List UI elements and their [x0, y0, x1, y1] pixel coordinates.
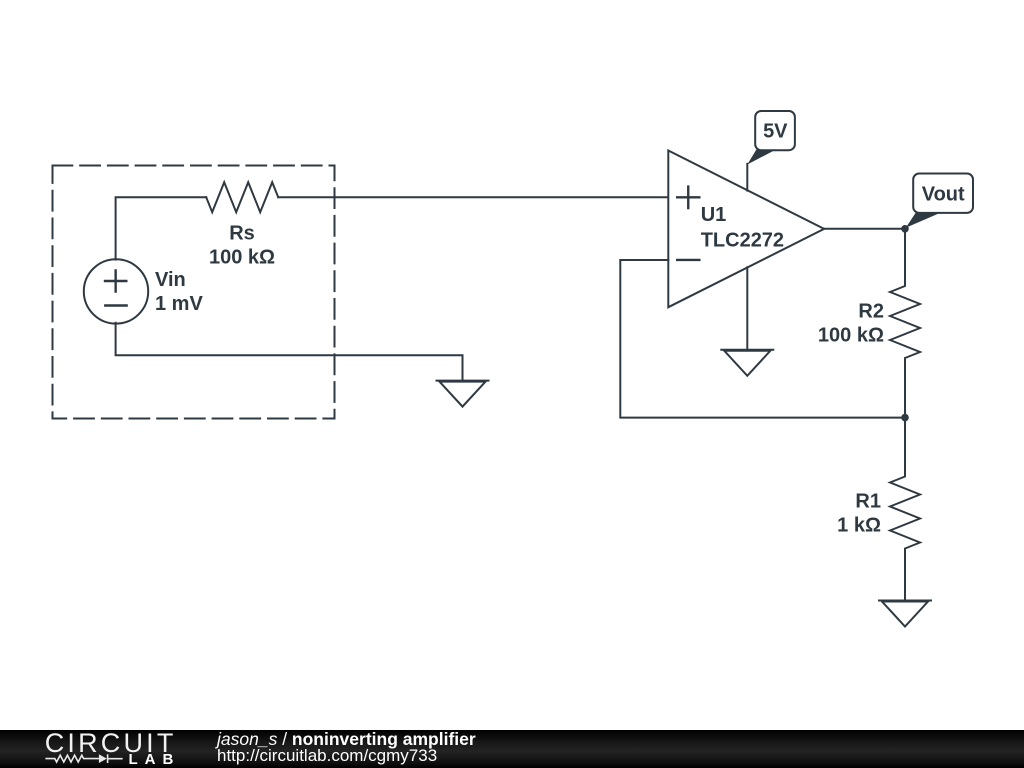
svg-text:R1: R1 — [855, 490, 881, 512]
node Vout junction — [901, 225, 909, 233]
svg-text:Rs: Rs — [229, 223, 255, 245]
power flag 5V — [747, 111, 795, 165]
wire — [116, 323, 463, 381]
svg-text:LAB: LAB — [129, 751, 181, 768]
url — [217, 746, 437, 766]
svg-text:100 kΩ: 100 kΩ — [209, 247, 275, 269]
svg-text:5V: 5V — [763, 121, 788, 143]
dashed annotation box — [53, 166, 335, 419]
resistor R1 — [890, 418, 920, 601]
svg-text:Vout: Vout — [922, 184, 965, 206]
wire — [824, 228, 905, 230]
CircuitLab logo — [0, 730, 190, 768]
resistor R2 — [890, 229, 920, 418]
svg-text:Vin: Vin — [155, 269, 186, 291]
wire — [746, 267, 748, 350]
ground — [437, 381, 489, 407]
ground — [879, 601, 931, 627]
wire — [116, 197, 207, 259]
author / title — [217, 729, 476, 749]
svg-text:100 kΩ: 100 kΩ — [818, 324, 884, 346]
footer bar — [0, 730, 1024, 768]
voltage source Vin — [84, 259, 148, 323]
svg-text:TLC2272: TLC2272 — [701, 230, 784, 252]
wire — [746, 164, 748, 191]
wire — [620, 260, 905, 418]
op-amp U1 — [668, 151, 824, 308]
node feedback junction — [901, 414, 909, 422]
svg-text:1 mV: 1 mV — [155, 293, 203, 315]
svg-text:1 kΩ: 1 kΩ — [837, 514, 881, 536]
ground — [721, 350, 773, 376]
svg-text:U1: U1 — [701, 204, 727, 226]
net flag Vout — [906, 174, 973, 228]
wire — [278, 196, 668, 198]
svg-text:R2: R2 — [858, 300, 884, 322]
resistor Rs — [206, 182, 278, 212]
